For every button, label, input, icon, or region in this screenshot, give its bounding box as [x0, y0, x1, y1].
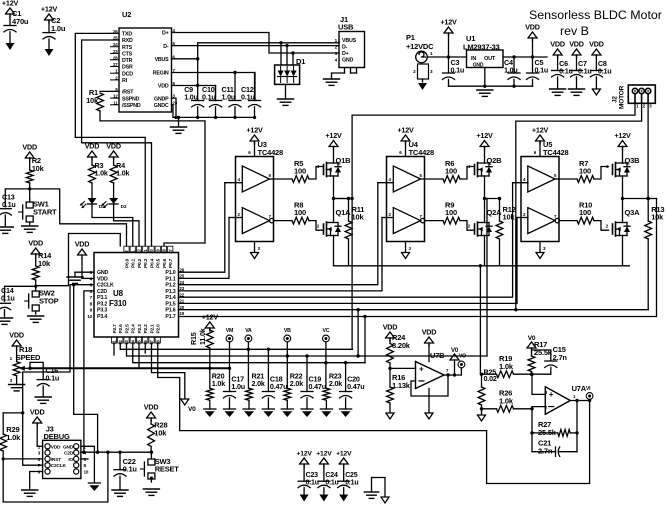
svg-text:470u: 470u: [12, 17, 29, 26]
wire J2 pin2 to phase B: [516, 103, 642, 309]
ground C20: [340, 408, 352, 410]
svg-text:+: +: [419, 365, 424, 374]
wire phase B sense drop: [357, 310, 359, 356]
svg-text:CTS: CTS: [122, 52, 133, 58]
wire P1.0 to U3: [179, 183, 225, 273]
svg-text:0.1u: 0.1u: [306, 480, 319, 487]
svg-text:100: 100: [294, 167, 306, 176]
svg-text:VC: VC: [322, 328, 329, 334]
wire D1 to ground: [285, 84, 287, 98]
wire MCU P2.7 stub: [113, 343, 115, 355]
node phase Q3: [621, 197, 624, 200]
svg-text:2.7n: 2.7n: [538, 447, 553, 456]
svg-text:DCD: DCD: [122, 71, 133, 77]
svg-text:+12V: +12V: [614, 131, 631, 140]
svg-text:+12V: +12V: [440, 18, 457, 27]
svg-text:P1.7: P1.7: [165, 314, 175, 320]
svg-text:GNDC: GNDC: [154, 103, 169, 109]
ground SW3: [143, 488, 159, 490]
svg-text:1.0u: 1.0u: [231, 382, 245, 391]
svg-text:V0: V0: [528, 335, 536, 342]
svg-text:100: 100: [445, 208, 457, 217]
svg-text:C25: C25: [345, 472, 358, 479]
svg-text:P1.3: P1.3: [165, 289, 175, 295]
wire phase to pull resistor: [334, 198, 349, 200]
U4 input B wire: [382, 217, 394, 219]
svg-text:P0.1: P0.1: [131, 258, 137, 268]
svg-text:10k: 10k: [154, 429, 167, 438]
svg-text:STOP: STOP: [39, 297, 59, 306]
svg-text:VDD: VDD: [569, 40, 584, 49]
svg-text:P3.3: P3.3: [97, 308, 107, 314]
svg-text:P2.1: P2.1: [149, 324, 155, 334]
svg-text:P2.6: P2.6: [118, 324, 124, 334]
wire phase A to drop: [334, 198, 353, 200]
svg-text:U7A: U7A: [572, 384, 587, 393]
wire VBUS net: [172, 58, 198, 60]
wire U7B feedback: [411, 375, 448, 396]
svg-text:0.1u: 0.1u: [325, 480, 338, 487]
ground C17: [224, 408, 236, 410]
U4 buffer A: [393, 166, 420, 192]
svg-text:VDD: VDD: [28, 239, 43, 248]
svg-text:V0: V0: [451, 348, 459, 354]
wire J2 pin3 down: [647, 103, 649, 198]
MCU GND pin wire: [75, 271, 94, 273]
jumper arrow right: [381, 497, 389, 503]
svg-text:P0.2: P0.2: [137, 258, 143, 268]
node phase Q2: [483, 197, 486, 200]
ground MCU: [67, 276, 83, 278]
wire phase A sense drop: [351, 115, 353, 349]
U3 buffer A: [242, 166, 269, 192]
svg-text:1.0u: 1.0u: [51, 24, 66, 33]
svg-text:100: 100: [445, 167, 457, 176]
ground C8: [592, 89, 600, 95]
svg-text:1.0k: 1.0k: [116, 169, 129, 178]
svg-text:2.0k: 2.0k: [290, 379, 303, 388]
wire phase to pull resistor: [485, 198, 500, 200]
svg-text:TC4428: TC4428: [543, 148, 569, 157]
svg-text:P1.1: P1.1: [165, 276, 175, 282]
ground R25: [481, 409, 483, 414]
svg-text:1.0k: 1.0k: [212, 379, 225, 388]
svg-text:VDD: VDD: [550, 40, 565, 49]
net arrow V0 at MCU: [152, 343, 185, 398]
ground U1 area: [477, 89, 493, 91]
svg-text:0.1u: 0.1u: [345, 480, 358, 487]
svg-text:Sensorless BLDC Motor: Sensorless BLDC Motor: [529, 8, 662, 22]
svg-text:VM: VM: [226, 328, 233, 334]
svg-text:1.0k: 1.0k: [95, 169, 108, 178]
wire VB line: [127, 343, 488, 356]
svg-text:0.1u: 0.1u: [578, 67, 592, 76]
wire MCU P2.2 stub: [144, 343, 146, 353]
U5 ground: [539, 242, 541, 253]
svg-text:TXD: TXD: [122, 32, 132, 38]
svg-text:0.1u: 0.1u: [2, 200, 16, 209]
svg-text:SSPND: SSPND: [122, 96, 140, 102]
svg-text:U2: U2: [122, 10, 131, 19]
svg-text:D3: D3: [121, 204, 127, 210]
svg-text:+12V: +12V: [316, 451, 332, 458]
ground R23: [320, 408, 332, 410]
svg-text:+12V: +12V: [202, 313, 219, 322]
wire source bus to shunt R25: [479, 266, 481, 374]
svg-text:VDD: VDD: [106, 142, 121, 151]
svg-text:TC4428: TC4428: [258, 148, 284, 157]
svg-text:C2CLK: C2CLK: [97, 283, 114, 289]
wire ground bus U1: [449, 85, 533, 87]
wire D2 to MCU: [92, 204, 133, 246]
ground for bypass caps: [171, 126, 187, 128]
svg-text:C2D: C2D: [97, 289, 107, 295]
wire J2 pin1 to phase A: [352, 103, 635, 115]
svg-text:P2.2: P2.2: [143, 324, 149, 334]
svg-text:8.20k: 8.20k: [392, 341, 411, 350]
svg-text:/RST: /RST: [122, 90, 134, 96]
svg-text:VDD: VDD: [158, 84, 169, 90]
svg-text:2.0k: 2.0k: [252, 379, 265, 388]
svg-text:1.13k: 1.13k: [392, 381, 411, 390]
svg-text:GNDP: GNDP: [154, 96, 169, 102]
svg-text:Q3A: Q3A: [625, 208, 641, 217]
ground C14: [0, 317, 13, 319]
svg-text:+12V: +12V: [2, 0, 19, 8]
svg-text:10: 10: [84, 470, 89, 475]
svg-text:0.1u: 0.1u: [123, 465, 138, 474]
wire low-side source bus: [334, 265, 630, 267]
wire U7B output: [444, 374, 461, 376]
svg-text:VDD: VDD: [75, 240, 90, 249]
svg-text:10k: 10k: [38, 259, 51, 268]
wire J3 IO stub: [81, 458, 88, 460]
wire D+ net: [172, 33, 340, 54]
net arrow V0 at U7B: [454, 360, 456, 375]
svg-text:P1.5: P1.5: [165, 301, 175, 307]
svg-text:RXD: RXD: [122, 38, 133, 44]
svg-text:VDD: VDD: [30, 408, 45, 417]
svg-text:D-: D-: [342, 45, 348, 51]
wire J3 GND pin: [81, 446, 95, 482]
svg-text:P0.0: P0.0: [124, 258, 130, 268]
wire reset node line: [81, 451, 151, 453]
svg-text:+12V: +12V: [476, 131, 493, 140]
wire D- net: [172, 45, 340, 47]
svg-text:START: START: [33, 208, 57, 217]
wire P1.3 to U4: [179, 218, 383, 291]
svg-text:GND: GND: [342, 58, 354, 64]
svg-text:+12V: +12V: [325, 131, 342, 140]
svg-text:DSR: DSR: [122, 65, 133, 71]
svg-text:11.0k: 11.0k: [198, 328, 207, 345]
ground R18: [9, 384, 25, 386]
svg-text:10: 10: [87, 314, 92, 319]
svg-text:VDD: VDD: [383, 323, 398, 332]
svg-text:R15: R15: [189, 332, 198, 345]
wire U2 gnd pins to bus: [172, 98, 177, 117]
wire R24 junction to opamp: [390, 367, 416, 369]
ground C6: [550, 88, 566, 90]
ground R22: [281, 408, 293, 410]
wire VI to MCU: [158, 343, 590, 484]
svg-text:GND: GND: [97, 270, 109, 276]
svg-text:100: 100: [579, 208, 591, 217]
svg-text:RTS: RTS: [122, 45, 133, 51]
svg-text:+12V: +12V: [336, 451, 352, 458]
wire U5 input B drop: [516, 218, 518, 304]
wire R29 bottom detour: [3, 452, 108, 502]
svg-text:+: +: [549, 390, 554, 399]
wire RST from MCU: [74, 285, 98, 453]
ground SW2: [28, 315, 44, 317]
wire J1 VBUS jog: [338, 40, 340, 43]
MCU VDD pin wire: [82, 277, 94, 279]
wire U1 out: [503, 56, 547, 58]
svg-text:10k: 10k: [352, 213, 365, 222]
svg-text:0.47u: 0.47u: [270, 382, 287, 391]
svg-text:P1: P1: [406, 33, 415, 42]
svg-text:P2.3: P2.3: [137, 324, 143, 334]
wire C2D to debug: [84, 291, 94, 452]
svg-text:VDD: VDD: [525, 23, 540, 32]
ground J3: [88, 482, 100, 484]
wire U7A plus input: [532, 374, 545, 394]
svg-text:OUT: OUT: [484, 56, 496, 62]
wire P1.4 to U5: [179, 183, 513, 298]
svg-text:C2D: C2D: [64, 451, 74, 457]
svg-text:VDD: VDD: [422, 328, 437, 337]
wire U7A feedback node: [531, 409, 533, 452]
svg-text:P0.4: P0.4: [149, 258, 155, 268]
svg-text:D+: D+: [162, 31, 169, 37]
svg-text:P2.4: P2.4: [131, 324, 137, 334]
wire P1.2 to U4: [179, 183, 378, 285]
wire VA line: [120, 343, 352, 349]
wire RXD to MCU: [82, 40, 152, 246]
ground R21: [243, 408, 255, 410]
svg-text:DTR: DTR: [122, 58, 133, 64]
svg-text:V0: V0: [188, 406, 196, 413]
svg-text:VDD: VDD: [9, 331, 24, 340]
svg-text:VDD: VDD: [589, 40, 604, 49]
wire P1.1 to U3: [179, 218, 230, 279]
svg-text:P1.6: P1.6: [165, 308, 175, 314]
svg-text:P2.0: P2.0: [156, 324, 162, 334]
wire VC line: [133, 343, 365, 363]
svg-text:P3.2: P3.2: [97, 301, 107, 307]
svg-text:C2CLK: C2CLK: [51, 463, 67, 469]
ground J1: [324, 78, 340, 80]
svg-text:C23: C23: [306, 472, 319, 479]
wire P1.7 row: [179, 199, 657, 317]
svg-text:P0.7: P0.7: [168, 258, 174, 268]
svg-text:P0.6: P0.6: [162, 258, 168, 268]
svg-text:RI: RI: [122, 78, 128, 84]
ground U7B: [428, 389, 430, 413]
ground C19: [301, 408, 313, 410]
svg-text:GND: GND: [63, 444, 74, 450]
wire phase to pull resistor: [623, 198, 649, 200]
svg-text:VO: VO: [459, 354, 466, 360]
svg-text:U7B: U7B: [430, 351, 445, 360]
svg-text:+12V: +12V: [41, 5, 58, 14]
wire C2CLK to J3: [23, 285, 94, 466]
svg-text:+12VDC: +12VDC: [406, 42, 434, 51]
svg-text:VBUS: VBUS: [155, 57, 170, 63]
U5 input A wire: [513, 182, 528, 184]
ground C16: [35, 396, 51, 398]
wire U7A minus input: [532, 407, 545, 409]
wire R29 top hook: [3, 412, 23, 414]
wire START to MCU: [30, 189, 127, 246]
wire U7A output to VI: [570, 400, 589, 402]
wire phase C sense drop: [364, 317, 366, 363]
U5 buffer A: [528, 166, 555, 192]
svg-text:/SSPND: /SSPND: [122, 103, 141, 109]
ground jumper left: [364, 491, 378, 493]
svg-text:J2: J2: [612, 96, 619, 103]
U4 input A wire: [378, 182, 394, 184]
U3 ground: [254, 242, 256, 253]
svg-text:19: 19: [180, 311, 185, 316]
svg-text:2.0k: 2.0k: [329, 379, 342, 388]
wire phase C to J2 drop: [648, 198, 656, 200]
svg-text:VDD: VDD: [22, 143, 37, 152]
svg-text:0.1u: 0.1u: [46, 374, 60, 383]
svg-text:VDD: VDD: [85, 142, 100, 151]
wire STOP to MCU: [36, 234, 121, 286]
wire P1.6 row: [179, 309, 649, 311]
svg-text:USB: USB: [338, 23, 354, 32]
svg-text:P1.0: P1.0: [165, 270, 175, 276]
ground J3 left: [22, 489, 38, 491]
wire J1 shield to ground: [344, 68, 346, 74]
svg-text:100: 100: [294, 208, 306, 217]
svg-text:1.0k: 1.0k: [6, 433, 21, 442]
ground R16: [386, 413, 394, 419]
U3 input A wire: [225, 182, 243, 184]
svg-text:GND: GND: [473, 63, 484, 69]
svg-text:0.47u: 0.47u: [347, 382, 364, 391]
ground C13: [0, 226, 13, 228]
svg-text:0.47u: 0.47u: [309, 382, 326, 391]
wire U7A output down: [576, 401, 578, 452]
wire REGIN net: [172, 73, 256, 101]
node phase Q1: [332, 197, 335, 200]
ground R20: [204, 408, 216, 410]
U5 box: [521, 157, 559, 242]
U4 ground: [405, 242, 407, 253]
svg-text:VDD: VDD: [51, 444, 61, 450]
wire J3 pin9 to ground: [30, 472, 43, 490]
svg-text:VDD: VDD: [97, 276, 108, 282]
wire D3 to MCU: [114, 204, 139, 246]
svg-text:MOTOR: MOTOR: [619, 85, 626, 109]
svg-text:D-: D-: [163, 44, 169, 50]
wire SPEED wiper: [30, 367, 230, 369]
ground C18: [262, 408, 274, 410]
svg-text:10k: 10k: [32, 164, 45, 173]
svg-text:TC4428: TC4428: [409, 148, 435, 157]
svg-text:P0.5: P0.5: [156, 258, 162, 268]
svg-text:VDD: VDD: [144, 403, 159, 412]
wire R13 bottom to row: [647, 239, 649, 310]
wire P1 to U1: [427, 56, 466, 58]
wire P1.5 row: [179, 302, 518, 304]
net arrow V0 at R17: [527, 342, 536, 348]
U4 buffer B (inverting): [393, 208, 420, 234]
wire R29 to J3 RST: [3, 458, 42, 460]
svg-text:C24: C24: [325, 472, 338, 479]
svg-text:U8: U8: [113, 289, 124, 298]
U5 input B wire: [517, 217, 528, 219]
svg-text:P3.4: P3.4: [97, 314, 107, 320]
ground C7: [569, 88, 585, 90]
svg-text:+12V: +12V: [532, 126, 549, 135]
wire TXD to MCU: [75, 33, 145, 246]
svg-text:IO: IO: [68, 457, 73, 463]
svg-text:+12V: +12V: [397, 126, 414, 135]
svg-text:VB: VB: [284, 328, 291, 334]
svg-text:0.1u: 0.1u: [598, 67, 612, 76]
U3 buffer B (inverting): [242, 208, 269, 234]
wire cap ground bus: [173, 116, 255, 118]
svg-text:0.1u: 0.1u: [1, 294, 15, 303]
svg-text:IN: IN: [471, 56, 476, 62]
svg-text:/RST: /RST: [51, 457, 61, 463]
svg-text:rev B: rev B: [560, 24, 589, 38]
svg-text:RESET: RESET: [155, 465, 180, 474]
wire VDD net U2: [172, 86, 216, 101]
U3 input B wire: [229, 217, 243, 219]
svg-text:100: 100: [579, 167, 591, 176]
svg-text:P1.4: P1.4: [165, 295, 175, 301]
svg-text:F310: F310: [109, 299, 127, 308]
svg-text:REGIN: REGIN: [153, 71, 169, 77]
svg-text:+12V: +12V: [246, 126, 263, 135]
svg-text:P2.5: P2.5: [124, 324, 130, 334]
svg-text:P1.2: P1.2: [165, 283, 175, 289]
ground C22: [112, 489, 128, 491]
jumper ground tie: [372, 478, 386, 497]
svg-text:P2.7: P2.7: [112, 324, 118, 334]
U3 box: [236, 157, 274, 242]
wire D1 taps: [280, 43, 282, 65]
ground D1: [278, 98, 294, 100]
svg-text:P3.1: P3.1: [97, 295, 107, 301]
U5 buffer B (inverting): [528, 208, 555, 234]
svg-text:VA: VA: [245, 328, 252, 334]
wire VM tap to MCU: [138, 343, 140, 368]
svg-text:SPEED: SPEED: [16, 353, 41, 362]
svg-text:VBUS: VBUS: [342, 38, 357, 44]
svg-text:P0.3: P0.3: [143, 258, 149, 268]
svg-text:+12V: +12V: [296, 451, 312, 458]
svg-text:10k: 10k: [651, 213, 664, 222]
svg-text:0.02: 0.02: [484, 374, 497, 383]
svg-text:D+: D+: [342, 51, 349, 57]
ground SW1: [22, 225, 38, 227]
U4 box: [387, 157, 425, 242]
svg-text:10k: 10k: [503, 213, 516, 222]
